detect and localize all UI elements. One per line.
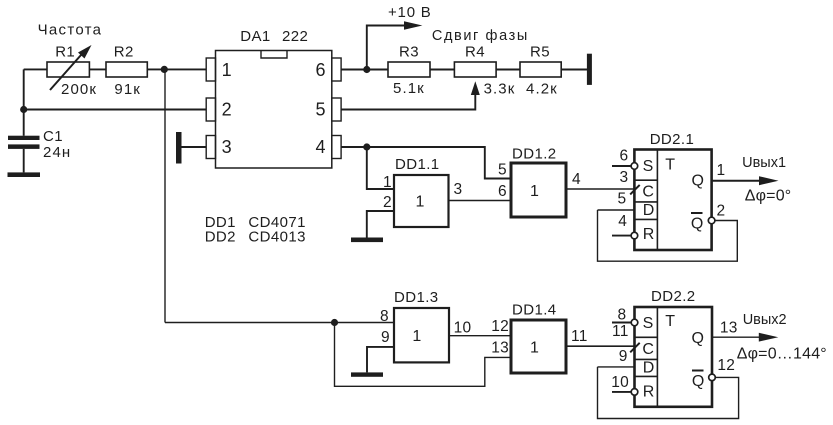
svg-text:Частота: Частота [38, 21, 103, 38]
svg-text:3.3к: 3.3к [484, 81, 516, 98]
svg-text:4: 4 [572, 171, 581, 188]
svg-text:5: 5 [315, 100, 325, 120]
svg-text:C: C [642, 341, 654, 358]
svg-text:Q: Q [692, 330, 704, 347]
svg-text:R: R [643, 384, 655, 401]
svg-text:6: 6 [620, 148, 629, 165]
svg-text:200к: 200к [61, 81, 97, 98]
svg-text:S: S [643, 158, 654, 175]
svg-text:4: 4 [315, 137, 325, 157]
svg-text:T: T [665, 313, 675, 330]
svg-text:DD1.4: DD1.4 [512, 302, 557, 319]
svg-text:9: 9 [381, 329, 390, 346]
svg-text:S: S [643, 315, 654, 332]
svg-text:D: D [643, 202, 655, 219]
svg-text:4.2к: 4.2к [526, 81, 558, 98]
svg-text:DD2.1: DD2.1 [650, 131, 695, 148]
svg-text:C: C [642, 183, 654, 200]
svg-text:2: 2 [717, 203, 726, 220]
svg-text:R2: R2 [114, 43, 134, 60]
svg-text:Q: Q [692, 373, 704, 390]
svg-text:13: 13 [491, 339, 509, 356]
svg-text:Q: Q [691, 216, 703, 233]
svg-text:1: 1 [530, 183, 539, 200]
svg-text:1: 1 [383, 174, 392, 191]
svg-text:6: 6 [315, 60, 325, 80]
svg-text:1: 1 [222, 60, 232, 80]
svg-text:1: 1 [412, 328, 421, 345]
svg-text:8: 8 [380, 308, 389, 325]
svg-text:1: 1 [717, 162, 726, 179]
svg-text:24н: 24н [43, 144, 71, 161]
svg-text:DD1.2: DD1.2 [512, 146, 557, 163]
svg-text:9: 9 [619, 348, 628, 365]
svg-text:6: 6 [498, 183, 507, 200]
svg-text:2: 2 [383, 194, 392, 211]
svg-text:DD1.1: DD1.1 [395, 156, 440, 173]
svg-text:91к: 91к [114, 81, 141, 98]
svg-text:R5: R5 [530, 43, 550, 60]
svg-text:R3: R3 [399, 43, 419, 60]
svg-text:3: 3 [222, 137, 232, 157]
svg-text:10: 10 [454, 320, 472, 337]
svg-text:10: 10 [611, 374, 629, 391]
svg-text:R4: R4 [465, 43, 485, 60]
svg-text:1: 1 [416, 193, 425, 210]
svg-text:5: 5 [618, 191, 627, 208]
svg-text:1: 1 [530, 339, 539, 356]
svg-text:D: D [643, 360, 655, 377]
svg-text:2: 2 [222, 100, 232, 120]
svg-text:11: 11 [612, 323, 629, 340]
svg-text:T: T [665, 157, 675, 174]
svg-text:R: R [643, 226, 655, 243]
svg-text:C1: C1 [43, 128, 63, 145]
svg-text:3: 3 [620, 169, 629, 186]
svg-text:R1: R1 [55, 43, 75, 60]
svg-text:DD2.2: DD2.2 [651, 288, 696, 305]
svg-text:4: 4 [618, 213, 627, 230]
svg-text:Uвых2: Uвых2 [743, 312, 787, 328]
svg-text:+10 В: +10 В [388, 4, 432, 21]
svg-text:5: 5 [498, 162, 507, 179]
svg-text:Сдвиг фазы: Сдвиг фазы [432, 28, 529, 44]
svg-text:12: 12 [491, 318, 509, 335]
svg-text:8: 8 [618, 307, 627, 324]
svg-text:5.1к: 5.1к [393, 80, 425, 97]
svg-text:DD1.3: DD1.3 [394, 289, 439, 306]
svg-text:222: 222 [282, 28, 308, 45]
svg-text:DD2: DD2 [205, 229, 236, 246]
svg-text:Q: Q [692, 173, 704, 190]
svg-text:Δφ=0…144°: Δφ=0…144° [737, 345, 827, 362]
svg-text:3: 3 [454, 181, 463, 198]
svg-text:13: 13 [720, 320, 738, 337]
svg-text:Δφ=0°: Δφ=0° [745, 188, 792, 205]
svg-text:12: 12 [717, 357, 735, 374]
svg-text:11: 11 [571, 328, 588, 345]
svg-text:CD4013: CD4013 [248, 229, 305, 246]
svg-text:DA1: DA1 [240, 28, 270, 45]
svg-text:Uвых1: Uвых1 [742, 155, 786, 171]
